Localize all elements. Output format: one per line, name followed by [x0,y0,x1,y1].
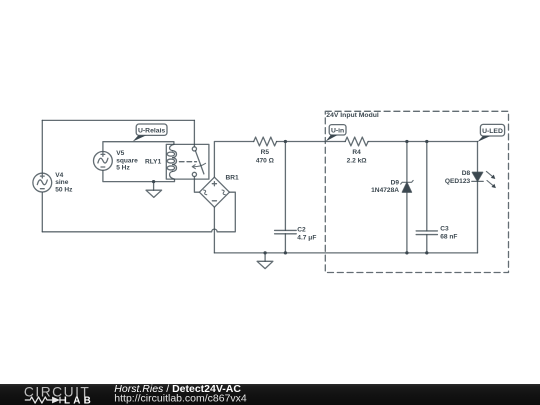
svg-text:http://circuitlab.com/c867vx4: http://circuitlab.com/c867vx4 [114,393,247,405]
LED D8 [472,171,496,188]
svg-text:BR1: BR1 [226,174,240,181]
wire V4 top lead [41,120,43,173]
relay RLY1 [166,144,209,179]
capacitor C3 [416,142,437,253]
svg-text:2.2 kΩ: 2.2 kΩ [347,157,368,164]
wire bottom rail with hop over BR1 lead [42,192,235,232]
ground (main rail) [257,253,273,269]
wire BR1 top lead to R5 rail [214,142,253,178]
svg-text:24V Input Modul: 24V Input Modul [326,112,379,119]
node junction ground rail [263,251,266,254]
node junction C2 top [284,140,287,143]
footer credit text [114,383,247,405]
label D8 QED123 [445,170,471,185]
svg-text:D9: D9 [391,179,400,186]
wire R4 to U-LED corner [368,141,477,143]
svg-text:4.7 μF: 4.7 μF [297,234,316,241]
svg-text:R5: R5 [261,149,270,156]
wire relay switch bottom pin to BR1 [194,177,199,193]
label R4 2.2 kohm [347,149,368,164]
resistor R4 [345,137,368,146]
svg-text:U-in: U-in [331,128,344,135]
wire BR1 bottom lead [213,207,215,253]
label V4 sine 50 Hz [55,172,73,193]
svg-text:470 Ω: 470 Ω [256,157,275,164]
svg-text:V4: V4 [55,172,63,179]
svg-text:50 Hz: 50 Hz [55,186,73,193]
label D9 1N4728A [371,179,399,194]
svg-text:C2: C2 [297,226,306,233]
wire top rail from V4 to relay switch pin [42,119,194,121]
svg-text:R4: R4 [352,149,361,156]
svg-text:square: square [116,158,138,165]
svg-text:QED123: QED123 [445,178,471,185]
node junction C2 bottom [284,251,287,254]
footer bar [0,384,540,405]
svg-text:LAB: LAB [64,396,94,405]
voltage source V5 [94,152,113,171]
voltage source V4 [33,173,52,192]
zener diode D9 [401,142,414,253]
svg-text:C3: C3 [440,225,449,232]
svg-text:RLY1: RLY1 [145,159,162,166]
wire R5 to R4 [277,141,346,143]
label C2 4.7 uF [297,226,316,241]
24V Input Modul dashed box [325,111,508,272]
net label U-Relais [133,124,167,142]
svg-text:sine: sine [55,179,69,186]
net label U-LED [477,124,504,141]
ground (V5 loop) [146,182,162,198]
wire LED branch [477,142,479,253]
wire ground rail [214,252,477,254]
wire V5 loop bottom [103,170,175,182]
svg-text:D8: D8 [462,170,471,177]
CircuitLab logo [24,384,94,405]
bridge rectifier BR1 [199,177,229,207]
node junction C3 top [425,140,428,143]
svg-text:U-LED: U-LED [482,128,503,135]
wire V5 loop top [103,142,174,152]
svg-text:1N4728A: 1N4728A [371,187,399,194]
node junction V5 ground [152,180,155,183]
node junction D9 top [405,140,408,143]
net label U-in [326,125,346,142]
capacitor C2 [275,142,297,253]
label C3 68 nF [440,225,457,240]
label R5 470 ohm [256,149,275,164]
svg-text:V5: V5 [116,150,124,157]
svg-text:5 Hz: 5 Hz [116,165,130,172]
svg-text:68 nF: 68 nF [440,233,457,240]
node junction C3 bottom [425,251,428,254]
wire V4 bottom lead [41,192,43,232]
resistor R5 [254,137,277,146]
label V5 square 5 Hz [116,150,138,172]
wire relay switch top pin [193,120,195,146]
node junction D9 bottom [405,251,408,254]
svg-text:U-Relais: U-Relais [138,127,165,134]
